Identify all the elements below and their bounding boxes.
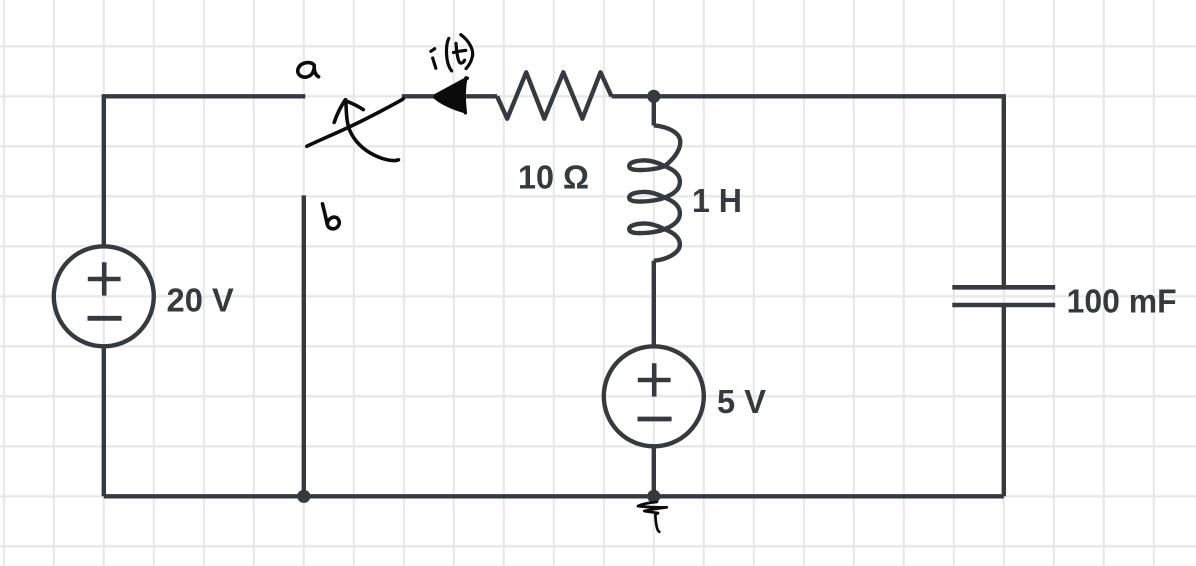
switch blade (freehand)	[307, 99, 404, 147]
t crossbar	[453, 50, 465, 52]
V2 minus	[638, 417, 672, 422]
node junction bottom-left	[297, 490, 310, 503]
svg-text:1 H: 1 H	[692, 183, 742, 220]
wire inductor top	[652, 96, 656, 125]
wire below 5V source	[652, 446, 656, 496]
wire inductor bottom	[652, 261, 656, 347]
wire top-right with corner	[612, 96, 1004, 287]
switch motion arc	[346, 100, 399, 161]
wire right below capacitor	[1002, 305, 1006, 496]
V1 plus	[88, 262, 121, 295]
V2 plus	[638, 363, 671, 396]
voltage source V2 5V circle	[604, 346, 704, 446]
ground squiggle	[638, 502, 667, 532]
svg-text:20 V: 20 V	[167, 283, 235, 320]
label a (handwritten)	[298, 63, 319, 78]
current arrow head (filled, sketchy)	[435, 78, 467, 113]
capacitor C 100mF plates	[952, 285, 1055, 290]
i stem	[433, 58, 436, 68]
node junction top	[647, 90, 660, 103]
wire bottom	[104, 494, 1004, 498]
svg-text:5 V: 5 V	[717, 384, 767, 421]
node junction bottom-center	[647, 490, 660, 503]
switch arrow barb right	[346, 101, 363, 110]
resistor R 10 ohm	[497, 72, 611, 118]
wire switch stub	[402, 94, 497, 98]
svg-text:10 Ω: 10 Ω	[518, 159, 589, 196]
inductor L 1H coil	[629, 125, 680, 260]
t stem	[456, 43, 465, 63]
switch arrow barb left	[334, 100, 345, 123]
wire top-left from node a to left corner and down	[104, 96, 305, 246]
svg-text:100 mF: 100 mF	[1067, 284, 1177, 321]
)	[461, 35, 473, 69]
label b (handwritten)	[323, 204, 340, 229]
voltage source V1 20V circle	[54, 246, 154, 346]
wire node b	[302, 195, 306, 496]
(	[446, 38, 451, 71]
wire left below source	[102, 346, 106, 496]
V1 minus	[88, 316, 122, 321]
current label i(t): i tick	[431, 49, 435, 52]
